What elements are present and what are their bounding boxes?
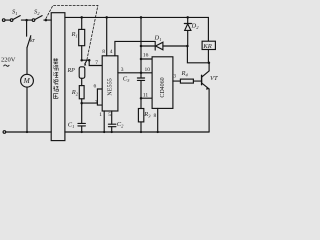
diode D1 [141, 45, 155, 47]
capacitor C2 on pin 5 [111, 111, 113, 124]
node pin16 junction [140, 58, 143, 61]
node D2 top [186, 16, 189, 19]
wire pin 3 to pin 10 [118, 72, 152, 74]
switch S1 contact circle [10, 19, 13, 22]
node C2 ground [111, 131, 113, 133]
wire node B to pin 7 [89, 60, 102, 65]
block vertical text 整流滤波稳压 (drawn glyphs) [53, 58, 58, 98]
wire S2 to block [44, 19, 51, 21]
node pin8 ground [157, 131, 159, 133]
node R2 bottom [80, 102, 83, 105]
svg-text:3: 3 [121, 67, 124, 73]
node D1 left junction [140, 45, 143, 48]
diode D2 [187, 17, 189, 23]
wire pin 2 stub [97, 104, 102, 106]
node CD4060 supply feed [140, 16, 143, 19]
char 流 [53, 65, 58, 70]
resistor R4 [180, 79, 193, 83]
char 滤 [53, 72, 58, 77]
wire node A to node B [82, 59, 90, 61]
svg-text:5: 5 [108, 112, 111, 118]
svg-text:11: 11 [143, 93, 149, 99]
resistor R2 [81, 78, 83, 85]
svg-text:KR: KR [202, 43, 211, 50]
svg-text:220V: 220V [1, 57, 16, 64]
wire dashed mechanical link [46, 5, 98, 60]
svg-text:7: 7 [95, 60, 98, 66]
node R1 top [80, 16, 83, 19]
svg-text:VT: VT [210, 75, 218, 82]
wire pin 8 of CD4060 to rail [157, 108, 159, 132]
wire down to kr contact [26, 20, 28, 36]
terminal circle left [2, 19, 5, 22]
char 稳 [53, 86, 58, 91]
svg-text:2: 2 [95, 100, 98, 106]
node C1 ground [81, 131, 83, 133]
capacitor C3 [137, 77, 144, 79]
wire V+ branch to CD4060 pin16 and C3 [140, 17, 142, 78]
svg-text:8: 8 [154, 113, 157, 119]
node D1-D2 junction [186, 45, 189, 48]
wire emitter to ground rail [208, 89, 210, 132]
svg-text:kr: kr [30, 38, 36, 44]
svg-text:16: 16 [143, 53, 149, 59]
switch S2 contact circle [32, 19, 35, 22]
resistor R1 [81, 17, 83, 29]
switch S2 blade [35, 16, 42, 20]
char 整 [53, 58, 58, 64]
node motor-rail junction [26, 131, 28, 133]
node R3 ground [140, 131, 142, 133]
wire R2-bottom to pins 2/6 tie [82, 102, 98, 104]
wire kr to motor [26, 48, 28, 75]
svg-text:10: 10 [145, 67, 151, 73]
node pin 11 junction [140, 97, 143, 100]
counter CD4060 box [152, 57, 173, 109]
svg-text:CD4060: CD4060 [160, 77, 166, 97]
relay coil KR box [202, 41, 215, 49]
wire pin 16 stub [141, 58, 152, 60]
terminal circle bottom-left [3, 131, 6, 134]
op-amp timer NE555 box [102, 56, 118, 111]
wire between S1 and S2 [21, 19, 32, 21]
transistor VT [208, 63, 210, 71]
wire bottom ground rail [65, 131, 209, 133]
wire motor to bottom rail [26, 87, 28, 132]
svg-text:RP: RP [67, 68, 76, 74]
node pin1 ground [103, 131, 105, 133]
node pin8 feed [105, 16, 108, 19]
wire D-junction down and right to collector line [187, 46, 209, 63]
wire KR bottom to collector [207, 50, 209, 63]
motor M circle [21, 74, 34, 87]
wire pin 6 stub [97, 88, 102, 90]
resistor R3 [140, 98, 142, 108]
label ~ [4, 65, 10, 66]
node collector line junction [208, 62, 211, 65]
node B [88, 59, 91, 62]
wire V+ rail [65, 17, 209, 41]
power supply block rectangle [51, 13, 65, 141]
svg-text:1: 1 [99, 112, 102, 118]
svg-text:4: 4 [110, 49, 113, 55]
wire pin 11 stub [141, 97, 152, 99]
wire pin6-pin2 tie vertical [96, 89, 98, 105]
switch S1 blade [13, 16, 20, 20]
char 压 [53, 94, 58, 99]
char 波 [53, 80, 58, 85]
node clock line crossing [140, 72, 143, 75]
wire pin 4 to D1 cathode [115, 41, 155, 55]
wire top-left segment 1 [5, 19, 10, 21]
node dashed-link attach [45, 19, 48, 22]
wire pin 8 [106, 17, 108, 55]
potentiometer RP [79, 67, 85, 79]
wiper arrow of RP [85, 60, 87, 64]
wire pin 1 to ground rail [103, 111, 105, 132]
node junction to kr branch [25, 19, 28, 22]
svg-text:6: 6 [94, 84, 97, 90]
wire pin 3 output stub [173, 80, 181, 82]
svg-text:8: 8 [102, 49, 105, 55]
capacitor C1 [81, 103, 83, 123]
svg-text:NE555: NE555 [107, 78, 114, 96]
node A R1 bottom [80, 59, 83, 62]
wire bottom-left rail [6, 131, 52, 133]
svg-text:M: M [23, 76, 31, 85]
relay contact kr blade [27, 36, 31, 48]
